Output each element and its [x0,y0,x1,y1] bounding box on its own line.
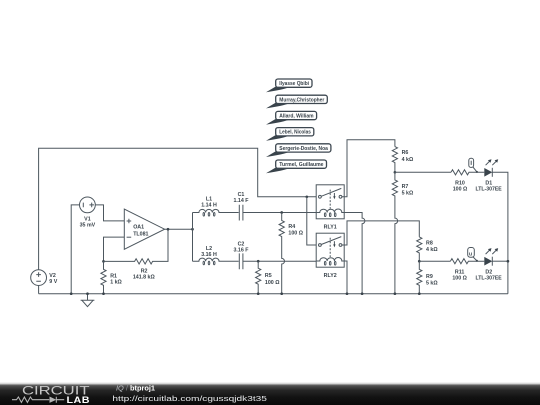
voltage source V2 [31,270,47,286]
svg-text:100 Ω: 100 Ω [288,231,303,237]
relay RLY1 box [316,185,344,219]
svg-text:RLY1: RLY1 [324,225,337,231]
note flag Sergerie-Dostie, Noa [266,144,331,157]
junction R9 bottom on rail [418,292,421,295]
voltage probe U [468,248,475,258]
resistor R4 [279,213,284,294]
ground symbol [81,294,95,307]
relay RLY2 dashed actuator line [329,238,331,257]
note flag Ilyasse Qbibi [266,79,312,92]
wire V2 bottom lead [38,286,40,294]
logo resistor squiggle [12,397,49,402]
resistor R6 [392,147,397,173]
wire relay feed to RLY2 pole [307,197,316,245]
svg-text:R7: R7 [402,184,409,190]
junction D2 cathode on right rail [507,260,510,263]
LED D1 emission arrows [486,161,497,165]
svg-text:141.8 kΩ: 141.8 kΩ [133,275,156,281]
wire C2 to relay RLY2 coil with hop over R4 [243,260,316,262]
relay RLY1 pole terminal [319,195,322,198]
svg-text:R1: R1 [110,274,117,280]
junction RLY2 coil return on rail [346,292,349,295]
junction R8/R9 node to R11 [419,260,450,262]
svg-text:Ilyasse Qbibi: Ilyasse Qbibi [279,81,309,87]
wire D1 cathode to right rail [492,172,508,293]
resistor R5 [256,261,261,294]
svg-text:TL081: TL081 [133,231,148,237]
relay RLY2 box [316,233,344,267]
junction feedback tap [167,228,170,231]
junction R5 top [257,260,260,263]
junction R8/R9 divider node [418,260,421,263]
wire D2 cathode to right rail [492,260,508,262]
svg-text:R10: R10 [455,180,465,186]
svg-text:1.14 H: 1.14 H [201,203,217,209]
junction RLY1 coil return on rail [361,292,364,295]
wire filter split vertical [192,213,194,262]
svg-text:R6: R6 [402,150,409,156]
relay RLY2 blade [321,237,341,245]
resistor R10 [451,170,484,175]
note flag Lebel, Nicolas [266,128,314,141]
wire op-amp inverting input branch [104,237,125,261]
svg-text:Murray,Christopher: Murray,Christopher [279,97,325,103]
wire V1 left branch vertical [71,205,79,294]
LED D1 [484,168,492,177]
svg-text:5 kΩ: 5 kΩ [402,191,414,197]
svg-text:V1: V1 [84,216,91,222]
wire RLY1 throw up and over to R6 [342,140,395,197]
wire V1 to op-amp non-inverting input [95,205,124,221]
junction ground on rail [86,292,89,295]
op-amp minus input sign [127,236,132,238]
svg-text:R9: R9 [426,274,433,280]
wire bottom ground rail [39,293,508,295]
svg-text:1.14 F: 1.14 F [233,198,249,204]
svg-text:RLY2: RLY2 [324,273,337,279]
svg-text:OA1: OA1 [133,224,144,230]
resistor R2 feedback [104,229,169,264]
relay RLY1 throw terminal [339,195,342,198]
note flag Murray,Christopher [266,95,327,108]
op-amp plus input sign [127,219,132,224]
op-amp U1 OA1 triangle [124,209,164,249]
wire RLY2 throw up and over to R8 [342,221,419,245]
svg-text:1 kΩ: 1 kΩ [110,280,122,286]
LED D2 [484,257,492,266]
svg-text:LTL-307EE: LTL-307EE [476,187,503,193]
svg-text:35 mV: 35 mV [80,223,96,229]
capacitor C1 [239,205,243,221]
junction R4 top [280,211,283,214]
capacitor C2 [239,253,243,269]
resistor R1 [101,261,106,293]
svg-text:100 Ω: 100 Ω [265,280,280,286]
svg-text:R11: R11 [455,269,464,275]
relay RLY2 throw terminal [339,244,342,247]
svg-text:Sergerie-Dostie, Noa: Sergerie-Dostie, Noa [279,146,329,152]
svg-text:D1: D1 [485,180,492,186]
wire op-amp output [165,228,193,230]
relay RLY1 blade [321,188,341,196]
wire RLY2 coil return to ground rail [344,261,347,294]
resistor R9 [417,261,422,294]
junction R7 bottom on rail [394,292,397,295]
junction R1/R2/inverting node [102,260,105,263]
wire R6/R7 node to R10 [395,171,451,173]
svg-text:R2: R2 [141,269,148,275]
LED D2 emission arrows [486,250,497,254]
inductor L1 [193,209,239,212]
junction relay feed node [305,195,308,198]
svg-text:4 kΩ: 4 kΩ [402,157,414,163]
voltage source V1 [80,197,96,213]
current probe I [469,158,474,167]
wire C1 to relay RLY1 coil [243,212,316,214]
svg-text:R5: R5 [265,273,272,279]
svg-text:u: u [469,251,472,257]
junction R5 bottom on rail [257,292,260,295]
svg-text:3.16 F: 3.16 F [233,247,249,253]
relay RLY2 actuator arrow [333,241,335,245]
junction R6/R7 divider node [394,171,397,174]
note flag Turmel, Guillaume [266,160,327,173]
logo diode symbol [50,397,57,403]
svg-text:R8: R8 [426,241,433,247]
relay RLY1 coil [316,209,344,213]
svg-text:http://circuitlab.com/cgussqjd: http://circuitlab.com/cgussqjdk3t35 [112,394,267,403]
svg-text:LAB: LAB [67,395,91,405]
junction filter split node [191,228,194,231]
svg-text:4 kΩ: 4 kΩ [426,247,438,253]
svg-text:LTL-307EE: LTL-307EE [476,275,503,281]
svg-text:Allard, William: Allard, William [279,114,313,120]
svg-text:100 Ω: 100 Ω [453,187,468,193]
note flag Allard, William [266,111,317,124]
svg-text:3.16 H: 3.16 H [201,252,217,258]
svg-text:5 kΩ: 5 kΩ [426,281,438,287]
svg-text:Lebel, Nicolas: Lebel, Nicolas [279,130,311,136]
svg-text:D2: D2 [485,269,492,275]
resistor R7 [392,172,397,293]
svg-text:Turmel, Guillaume: Turmel, Guillaume [279,162,323,168]
resistor R8 [417,237,422,261]
resistor R11 [450,259,484,264]
wire top rail from V2 to relay feed corner [39,148,317,269]
wire RLY1 coil return to ground rail [344,213,365,294]
junction R1 bottom on rail [102,292,105,295]
relay RLY2 coil [316,257,344,261]
relay RLY2 pole terminal [319,244,322,247]
svg-text:R4: R4 [288,224,295,230]
svg-text:9 V: 9 V [49,279,57,285]
junction R4 bottom on rail [280,292,283,295]
relay RLY1 dashed actuator line [329,190,331,209]
junction at V1 branch on rail [70,292,73,295]
svg-text:IQ / btproj1: IQ / btproj1 [116,384,155,393]
svg-text:100 Ω: 100 Ω [452,275,467,281]
relay RLY1 actuator arrow [333,193,335,197]
inductor L2 [193,258,239,261]
